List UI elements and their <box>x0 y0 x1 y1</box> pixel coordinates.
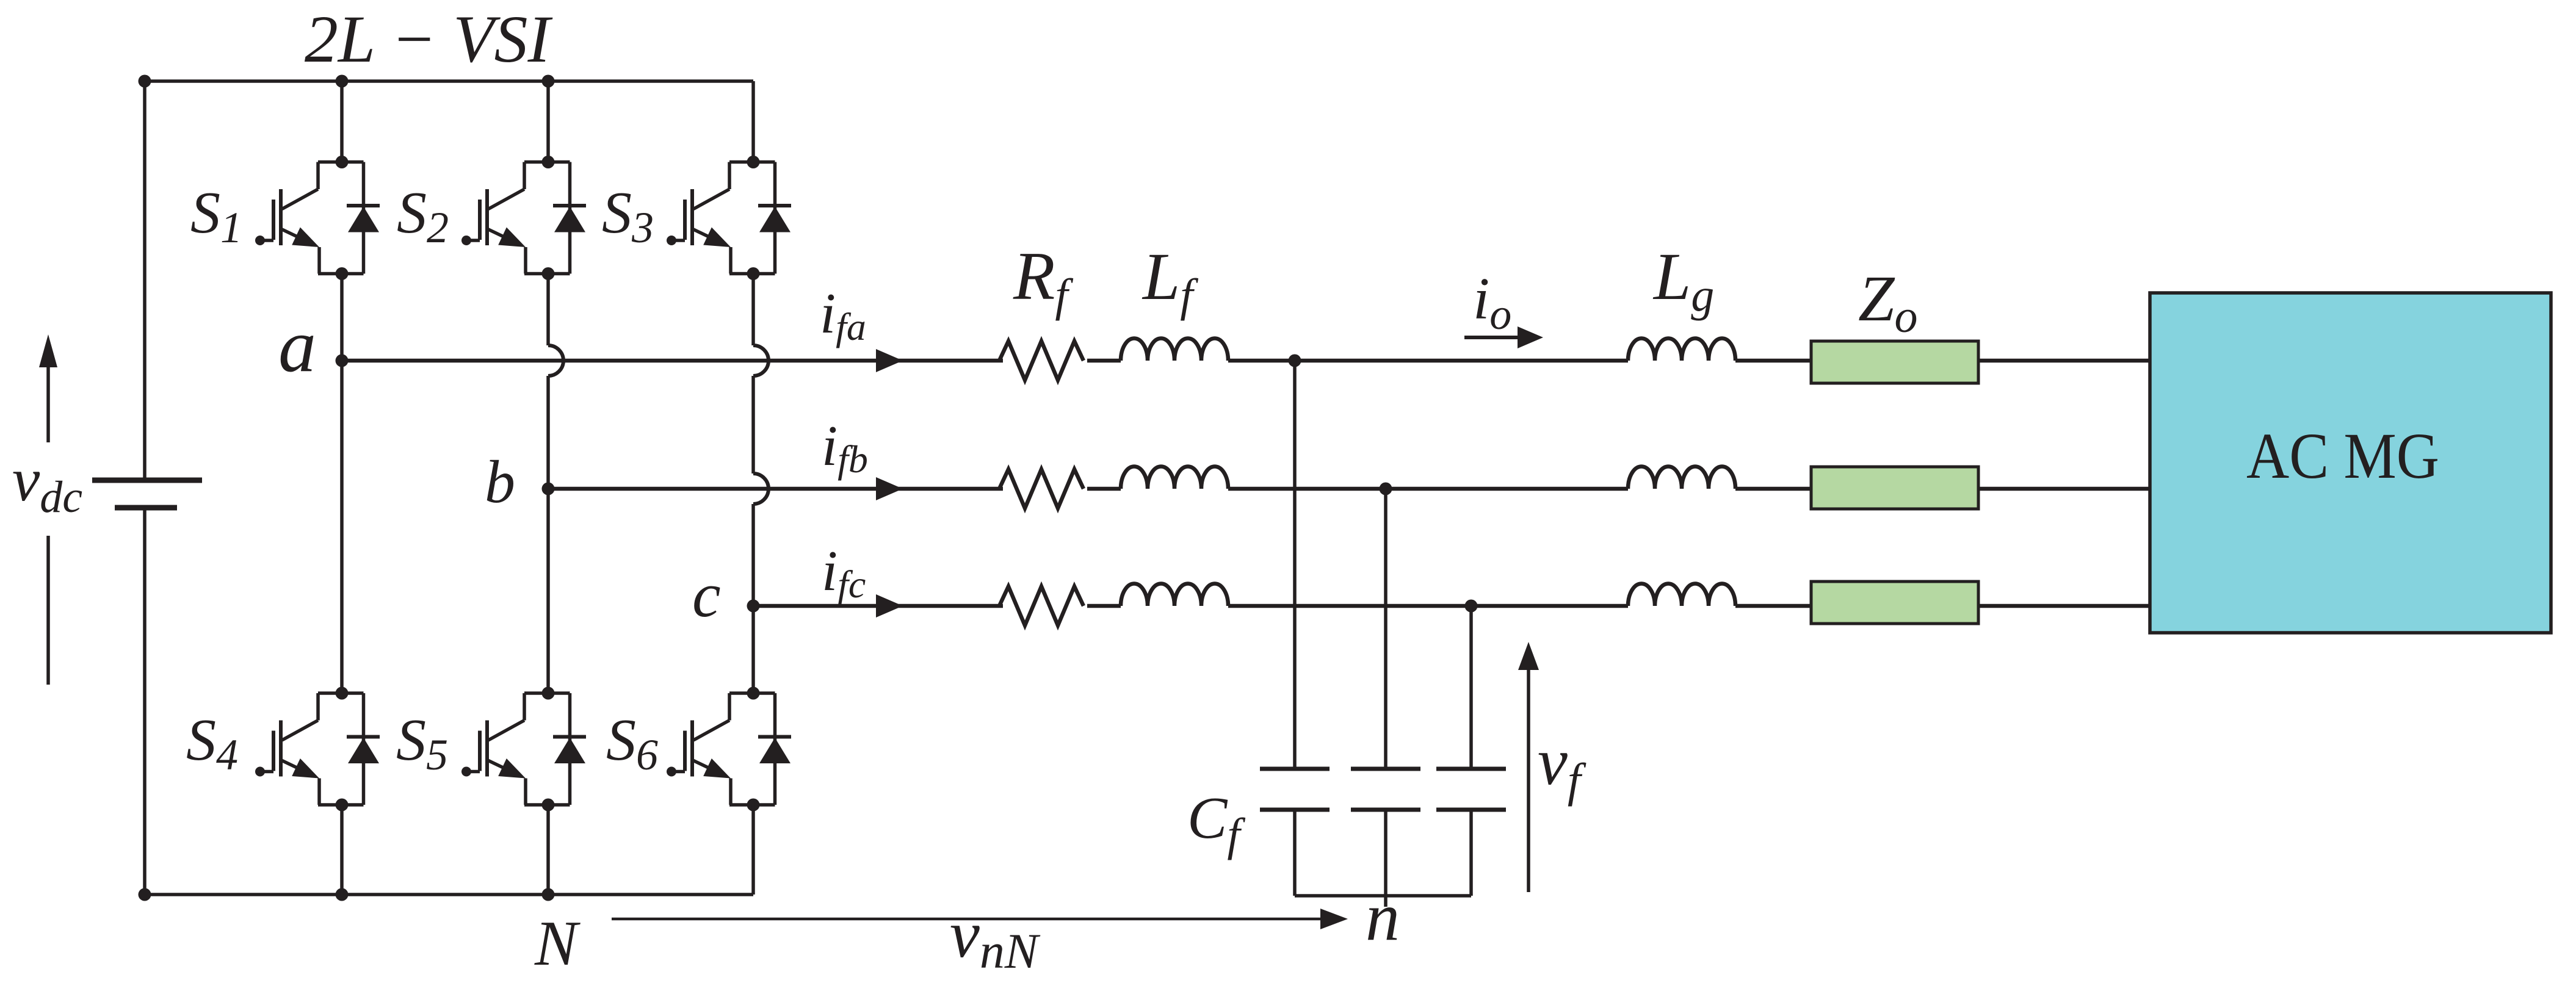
node phase a filter junction <box>1289 355 1301 367</box>
wire top dc bus <box>145 79 753 83</box>
impedance Zo phase a <box>1811 341 1978 383</box>
wire leg c upper mid <box>751 274 755 346</box>
impedance Zo phase b <box>1811 467 1978 509</box>
svg-text:Lg: Lg <box>1652 239 1714 321</box>
wire phase c segment 2 <box>1087 604 1121 608</box>
wire phase b segment 2 <box>1087 487 1121 491</box>
svg-text:vf: vf <box>1538 724 1586 807</box>
svg-text:ifa: ifa <box>820 282 866 348</box>
node bottom bus leg b N <box>542 888 555 901</box>
battery Vdc negative plate <box>115 505 177 511</box>
wire leg c between hops <box>751 376 755 473</box>
node phase b <box>542 483 555 495</box>
wire leg a bottom stub <box>340 805 344 895</box>
svg-text:S3: S3 <box>602 180 654 252</box>
node phase c <box>747 600 760 613</box>
arrow ifc <box>876 594 903 618</box>
wire phase a segment 3 <box>1228 359 1628 363</box>
arrow vf <box>1518 642 1539 892</box>
svg-text:b: b <box>485 448 515 516</box>
svg-text:n: n <box>1366 879 1400 955</box>
inductor Lg phase a <box>1628 339 1735 361</box>
wire phase a segment 4 <box>1735 359 1811 363</box>
wire phase b segment 1 <box>548 487 1003 491</box>
transistor S6 <box>667 687 791 812</box>
svg-text:ifb: ifb <box>822 414 868 481</box>
wire capacitor branch b upper <box>1384 489 1387 769</box>
svg-text:S5: S5 <box>396 707 448 779</box>
svg-text:vnN: vnN <box>950 897 1041 979</box>
wire phase c segment 4 <box>1735 604 1811 608</box>
node phase c filter junction <box>1465 600 1478 613</box>
svg-text:Cf: Cf <box>1187 785 1245 860</box>
wire phase b segment 4 <box>1735 487 1811 491</box>
wire leg a top stub <box>340 81 344 162</box>
wire leg b bottom stub <box>546 805 550 895</box>
resistor Rf phase a <box>999 341 1084 380</box>
wire capacitor branch a lower <box>1293 810 1297 896</box>
wire left dc rail upper <box>143 81 147 480</box>
wire phase b segment 3 <box>1228 487 1628 491</box>
svg-text:S6: S6 <box>606 707 658 779</box>
node bottom bus left corner <box>139 888 151 901</box>
svg-text:S4: S4 <box>186 707 238 779</box>
wire leg c bottom stub <box>751 805 755 895</box>
svg-text:2L − VSI: 2L − VSI <box>305 2 553 76</box>
wire capacitor branch b overshoot <box>1384 896 1387 907</box>
wire leg b lower mid <box>546 376 550 693</box>
inductor Lg phase c <box>1628 584 1735 607</box>
inductor Lf phase b <box>1121 467 1228 489</box>
transistor S2 <box>461 156 586 280</box>
wire phase b segment 5 <box>1978 487 2150 491</box>
battery Vdc positive plate <box>92 478 202 483</box>
svg-text:S1: S1 <box>190 180 242 252</box>
block AC MG <box>2150 293 2551 633</box>
node phase a <box>336 355 349 367</box>
wire leg a mid <box>340 274 344 694</box>
wire leg b upper mid <box>546 274 550 346</box>
svg-text:N: N <box>534 907 581 979</box>
transistor S3 <box>667 156 791 280</box>
node top bus leg b <box>542 75 555 88</box>
capacitor Cf phase a <box>1260 769 1330 810</box>
wire hop leg c over phase a <box>753 345 769 376</box>
wire phase a segment 2 <box>1087 359 1121 363</box>
transistor S4 <box>255 687 380 812</box>
wire bottom dc bus <box>145 893 753 896</box>
resistor Rf phase c <box>999 586 1084 625</box>
inductor Lg phase b <box>1628 467 1735 489</box>
svg-text:io: io <box>1473 266 1511 339</box>
arrow vdc lower segment <box>46 536 50 685</box>
svg-text:a: a <box>278 304 316 387</box>
wire capacitor branch b lower <box>1384 810 1387 896</box>
arrow vdc upper segment <box>39 334 57 442</box>
svg-text:vdc: vdc <box>12 445 82 522</box>
wire hop leg c over phase b <box>753 473 769 504</box>
arrow ifb <box>876 477 903 500</box>
svg-text:AC MG: AC MG <box>2246 420 2439 492</box>
svg-text:Zo: Zo <box>1858 263 1918 342</box>
node phase b filter junction <box>1380 483 1392 495</box>
wire capacitor bottom rail n <box>1295 894 1471 898</box>
transistor S5 <box>461 687 586 812</box>
node top bus leg a <box>336 75 349 88</box>
wire capacitor branch a upper <box>1293 361 1297 769</box>
wire phase a segment 5 <box>1978 359 2150 363</box>
svg-text:S2: S2 <box>397 180 449 252</box>
wire phase c segment 3 <box>1228 604 1628 608</box>
wire hop leg b over phase a <box>548 345 563 376</box>
wire capacitor branch c upper <box>1469 606 1473 769</box>
node bottom bus leg a <box>336 888 349 901</box>
inductor Lf phase a <box>1121 339 1228 361</box>
svg-text:Lf: Lf <box>1141 239 1198 321</box>
wire leg c lower mid <box>751 504 755 693</box>
wire leg b top stub <box>546 81 550 162</box>
arrow vnN <box>612 909 1348 929</box>
wire phase a segment 1 <box>342 359 1003 363</box>
inductor Lf phase c <box>1121 584 1228 607</box>
svg-text:Rf: Rf <box>1013 239 1073 321</box>
arrow ifa <box>876 349 903 372</box>
wire phase c segment 5 <box>1978 604 2150 608</box>
wire capacitor branch c lower <box>1469 810 1473 896</box>
transistor S1 <box>255 156 380 280</box>
impedance Zo phase c <box>1811 582 1978 624</box>
resistor Rf phase b <box>999 469 1084 508</box>
svg-text:ifc: ifc <box>822 539 866 606</box>
node top bus left corner <box>139 75 151 88</box>
capacitor Cf phase c <box>1436 769 1506 810</box>
wire left dc rail lower <box>143 508 147 895</box>
svg-text:c: c <box>692 559 721 630</box>
capacitor Cf phase b <box>1351 769 1420 810</box>
wire phase c segment 1 <box>753 604 1003 608</box>
wire leg c top stub <box>751 81 755 162</box>
arrow io <box>1464 326 1543 348</box>
